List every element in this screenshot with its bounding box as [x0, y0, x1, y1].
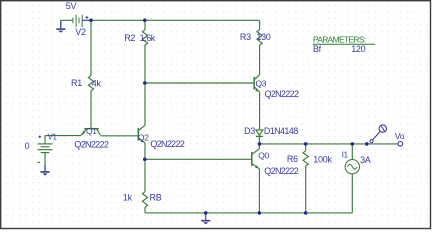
svg-text:Q1: Q1	[86, 126, 97, 136]
ground at V2	[56, 21, 65, 33]
junction dot ground bottom	[204, 211, 208, 215]
battery V2	[73, 15, 82, 27]
wire Q2 node to Q0 base	[145, 158, 252, 160]
wire top rail	[91, 19, 260, 21]
svg-text:I1: I1	[342, 151, 349, 160]
junction dot switch node	[365, 142, 369, 146]
parameters underline	[313, 43, 375, 45]
wire R2 node to Q3 base	[145, 82, 254, 84]
battery V2 plus sign	[86, 16, 89, 19]
resistor R6	[303, 144, 308, 213]
switch U1 clock	[379, 125, 386, 132]
current source I1	[345, 144, 359, 213]
svg-text:130: 130	[256, 32, 270, 42]
ground at V1	[40, 165, 49, 176]
svg-text:R6: R6	[287, 154, 298, 164]
svg-text:RB: RB	[150, 193, 162, 203]
svg-text:3A: 3A	[360, 155, 371, 165]
wire R2 node down to Q2 collector	[144, 83, 146, 125]
pin Vo	[398, 142, 403, 147]
wire 5V node down to R1	[90, 20, 92, 75]
wire RB to bottom rail	[144, 207, 146, 213]
svg-text:4k: 4k	[92, 78, 102, 88]
wire Q0 collector to node	[258, 144, 260, 149]
battery V1	[38, 136, 53, 171]
wire output node row	[259, 143, 398, 145]
battery V2 plus stub	[82, 19, 91, 21]
transistor Q3	[254, 75, 259, 92]
svg-text:Q2N2222: Q2N2222	[150, 139, 184, 149]
junction dot D3 output node	[258, 142, 262, 146]
resistor R2	[142, 20, 147, 83]
switch U1 contact	[370, 140, 373, 143]
svg-text:Q2N2222: Q2N2222	[74, 139, 108, 149]
junction dot R6 bottom	[304, 211, 308, 215]
svg-text:R1: R1	[71, 78, 82, 88]
svg-text:Q2N2222: Q2N2222	[264, 166, 298, 176]
junction dot Q2 emitter node	[143, 158, 147, 162]
transistor Q2	[138, 125, 145, 143]
svg-text:Q2: Q2	[138, 132, 149, 142]
svg-text:R3: R3	[240, 32, 251, 42]
svg-text:V2: V2	[75, 27, 86, 37]
svg-text:R2: R2	[124, 33, 135, 43]
svg-text:120: 120	[351, 44, 365, 54]
junction dot Q0 emitter bottom	[258, 211, 262, 215]
wire V2 ground link	[61, 20, 73, 28]
resistor R3	[257, 20, 262, 74]
svg-text:D3: D3	[244, 126, 255, 136]
battery V1 minus sign	[38, 161, 41, 163]
diode D3	[256, 130, 263, 144]
svg-text:PARAMETERS:: PARAMETERS:	[313, 35, 366, 45]
svg-text:V1: V1	[48, 133, 58, 142]
junction dot R6 top	[304, 142, 308, 146]
svg-text:0: 0	[25, 141, 30, 151]
ground at bottom rail	[201, 213, 210, 224]
resistor R1	[88, 76, 93, 91]
svg-text:Q3: Q3	[256, 78, 267, 88]
wire V1 to Q1 emitter	[45, 135, 81, 137]
wire Q0 emitter to bottom rail	[258, 169, 260, 213]
svg-text:D1N4148: D1N4148	[264, 126, 298, 136]
svg-text:Q2N2222: Q2N2222	[265, 89, 299, 99]
junction dot R2/Q3 base	[143, 81, 147, 85]
battery V1 plus sign	[39, 136, 42, 139]
wire R1 to Q1 base	[90, 91, 92, 128]
transistor Q0	[252, 149, 260, 169]
wire bottom rail	[145, 212, 352, 214]
junction dot R2 top	[143, 19, 147, 23]
wire Q1 collector to Q2 base	[100, 135, 137, 137]
svg-text:Bf: Bf	[313, 44, 322, 54]
svg-text:Q0: Q0	[258, 150, 269, 160]
svg-text:100k: 100k	[313, 155, 332, 165]
svg-text:5V: 5V	[66, 1, 77, 11]
resistor RB	[142, 192, 147, 207]
svg-text:Vo: Vo	[395, 131, 405, 141]
wire Q2 node down to RB	[144, 159, 146, 191]
svg-text:1.6k: 1.6k	[140, 33, 156, 43]
transistor Q1	[81, 129, 100, 136]
junction dot 5V node	[89, 19, 93, 23]
junction dot I1 top	[351, 142, 355, 146]
wire Q3 emitter to D3	[259, 92, 261, 130]
wire Q2 emitter to node	[144, 143, 146, 160]
switch U1 lever	[373, 132, 380, 140]
svg-text:1k: 1k	[123, 193, 133, 203]
